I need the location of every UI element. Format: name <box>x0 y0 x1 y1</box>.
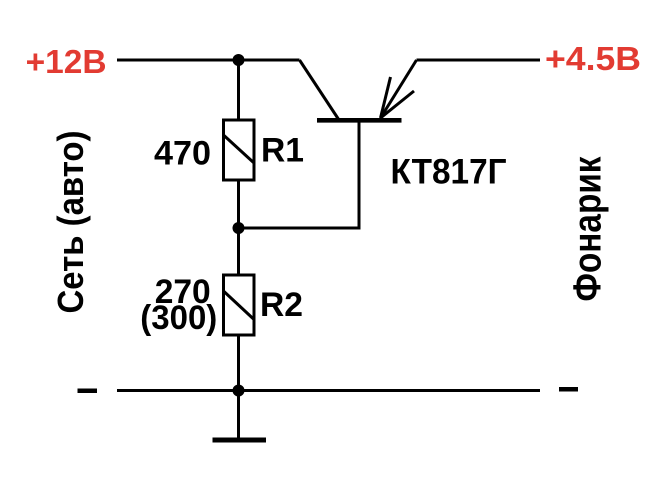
resistor R1 <box>224 120 255 180</box>
svg-text:(300): (300) <box>140 299 217 337</box>
svg-text:+12В: +12В <box>26 43 107 80</box>
minus sign right <box>559 387 578 392</box>
wire base vertical <box>358 121 361 230</box>
svg-text:+4.5В: +4.5В <box>545 40 641 77</box>
wire base horizontal <box>239 227 360 230</box>
minus sign left <box>78 389 98 394</box>
wire bottom rail <box>117 389 540 392</box>
wire R1 bottom lead <box>237 180 240 228</box>
junction top node <box>233 54 245 66</box>
svg-text:R2: R2 <box>260 286 303 324</box>
wire R2 top lead <box>237 228 240 276</box>
svg-text:КТ817Г: КТ817Г <box>391 153 507 192</box>
svg-text:R1: R1 <box>261 132 304 170</box>
svg-text:Сеть (авто): Сеть (авто) <box>50 131 91 314</box>
wire top-left rail <box>117 59 300 62</box>
wire R1 top lead <box>237 60 240 121</box>
svg-text:470: 470 <box>154 135 211 173</box>
ground <box>213 391 267 441</box>
transistor Q1 KT817G <box>300 60 417 120</box>
svg-text:Фонарик: Фонарик <box>566 156 609 301</box>
wire top-right rail <box>417 59 541 62</box>
junction ground node <box>233 385 245 397</box>
resistor R2 <box>224 275 255 335</box>
junction base node <box>233 222 245 234</box>
wire R2 bottom lead <box>237 335 240 391</box>
